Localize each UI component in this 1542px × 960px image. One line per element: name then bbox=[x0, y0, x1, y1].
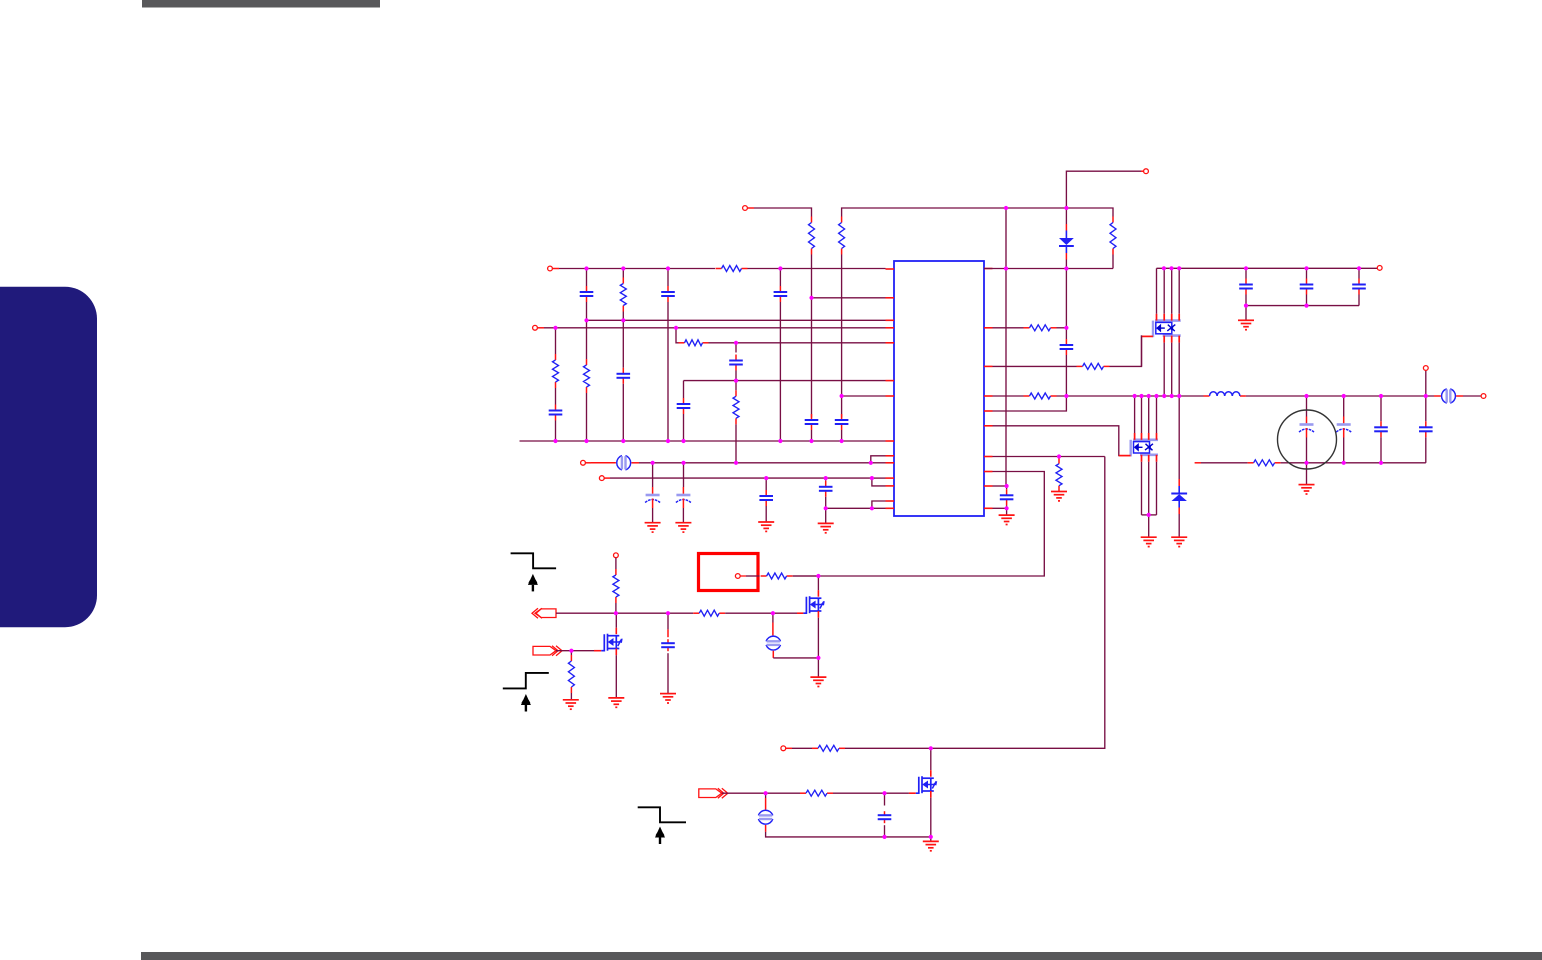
C11 bottom wire bbox=[682, 508, 684, 523]
schottky diode D2 (1179,493) bbox=[1171, 486, 1187, 508]
port P1 tail bbox=[747, 207, 754, 209]
wire W2 y650.7 bbox=[556, 650, 594, 652]
black step symbol S1 bbox=[511, 553, 556, 568]
junction at (555.5,441) bbox=[553, 439, 557, 443]
column 623 upper stub bbox=[622, 269, 624, 278]
resistor R19 (818-839,748) bbox=[812, 745, 845, 751]
wire pin328 to R10 bbox=[993, 327, 1024, 329]
junction at (586.5,441) bbox=[584, 439, 588, 443]
junction at (780.4,268.5) bbox=[778, 266, 782, 270]
capacitor C4 (780,294) bbox=[774, 286, 788, 302]
wire D1 to bus268 bbox=[1065, 260, 1067, 269]
C22 top wire bbox=[1425, 396, 1427, 421]
resistor R8 (684-702,343) bbox=[679, 340, 709, 346]
wire FB2 to port P8 bbox=[1463, 395, 1481, 397]
capacitor C14 (1066,347) bbox=[1060, 339, 1074, 355]
junction at (1164.2,396) bbox=[1162, 394, 1166, 398]
net-tie NT2 (766,817) bbox=[758, 810, 772, 824]
column 668 low bbox=[667, 302, 669, 441]
capacitor C9 (683,406) bbox=[677, 398, 691, 414]
vertical 1066 (268-396) bbox=[1065, 269, 1067, 340]
QL source tie bar bbox=[1142, 514, 1157, 516]
junction at (1141.5,396) bbox=[1139, 394, 1143, 398]
junction at (1343.7,396) bbox=[1342, 394, 1346, 398]
ferrite bead FB1 (623.7,463) bbox=[617, 456, 631, 470]
resistor R11 (1082-1103,366) bbox=[1077, 363, 1110, 369]
FB2 left stub bbox=[1434, 395, 1441, 397]
column 780 low bbox=[779, 302, 781, 441]
bus268 left segment bbox=[559, 268, 715, 270]
junction at (1343.7,462.8) bbox=[1342, 461, 1346, 465]
column 623 mid bbox=[622, 312, 624, 368]
junction at (1066.4,208) bbox=[1064, 206, 1068, 210]
column 736 mid bbox=[735, 371, 737, 391]
wire junction841 to U1 pin LX bbox=[842, 395, 886, 397]
junction at (1148.7,514.9) bbox=[1147, 513, 1151, 517]
port P2h tail bbox=[1141, 170, 1144, 172]
wire y478.1 bbox=[610, 477, 872, 479]
step down to pin y485.9 bbox=[872, 478, 886, 486]
R18 top wire bbox=[570, 651, 572, 655]
C10 bottom wire bbox=[652, 508, 654, 523]
step up to pin y455.8 bbox=[871, 456, 886, 463]
column 780 upper bbox=[779, 269, 781, 287]
resistor R14 (1253-1275,463) bbox=[1248, 460, 1281, 466]
junction at (1179.2,268.3) bbox=[1177, 266, 1181, 270]
wire C7 to bus441 bbox=[811, 430, 813, 441]
C16 top wire bbox=[1245, 268, 1247, 278]
CS1 top wire bbox=[772, 613, 774, 622]
column 683 upper bbox=[683, 381, 685, 398]
net-tie NT1 (773,643) bbox=[766, 636, 780, 650]
junction at (841.6,396) bbox=[840, 394, 844, 398]
junction at (884.5,793.2) bbox=[882, 791, 886, 795]
wire y462.8 into pin bbox=[871, 462, 886, 464]
ground G11 (571) bbox=[563, 700, 579, 709]
wire pin456 to 1104 bbox=[993, 456, 1105, 458]
junction at (811.5,297.8) bbox=[809, 296, 813, 300]
C17 bottom wire bbox=[1306, 295, 1308, 306]
ground G10 (1306) bbox=[1299, 485, 1315, 494]
resistor R4 (721-741,268) bbox=[716, 266, 748, 272]
R18 bottom wire bbox=[570, 693, 572, 700]
small MOSFET Q4 (616,643) bbox=[594, 628, 623, 656]
capacitor C8 (841,422) bbox=[835, 414, 849, 430]
capacitor C22 (1426,429.3) bbox=[1419, 421, 1433, 437]
port P4 (535,328) bbox=[533, 325, 538, 330]
port P9 (1425.8,368) bbox=[1423, 366, 1428, 371]
bus268 left segment b bbox=[748, 268, 886, 270]
junction at (871.9,508.3) bbox=[870, 506, 874, 510]
capacitor C1 (586,294) bbox=[580, 286, 594, 302]
junction at (1148.7,396) bbox=[1147, 394, 1151, 398]
wire y478 into pin bbox=[872, 477, 886, 479]
junction at (1425.8,396) bbox=[1424, 394, 1428, 398]
diode D1 bottom red stub bbox=[1065, 253, 1067, 260]
QL source to ground bbox=[1148, 515, 1150, 537]
C12 bottom wire bbox=[765, 506, 767, 522]
ground G8 (1179) bbox=[1171, 537, 1187, 546]
black arrow A2 bbox=[521, 694, 531, 712]
junction at (623.3,320.3) bbox=[621, 318, 625, 322]
capacitor C17 (1306.5,286.5) bbox=[1300, 279, 1314, 295]
wire R11 to gate corner bbox=[1110, 335, 1142, 366]
CS1 bottom red stub bbox=[772, 651, 774, 658]
Q3 drain wire bbox=[817, 576, 819, 590]
bus y342.8 to U1 bbox=[709, 342, 886, 344]
wire W1b y613.2 bbox=[725, 612, 797, 614]
QL source wires bbox=[1142, 462, 1157, 515]
filter FB1 right stub bbox=[632, 462, 640, 464]
resistor R20 (806-827,793) bbox=[800, 790, 833, 796]
U1 right pin stubs bbox=[984, 269, 993, 509]
C18 bottom wire bbox=[1358, 295, 1360, 306]
R16 bottom wire bbox=[615, 603, 617, 613]
P10 tail bbox=[740, 575, 746, 577]
Q5 drain wire bbox=[930, 748, 932, 770]
black step symbol S2 bbox=[503, 673, 549, 689]
bottom footer bar bbox=[141, 952, 1542, 960]
top header bar bbox=[142, 0, 380, 8]
filter FB1 left stub bbox=[591, 462, 616, 464]
column 586 upper bbox=[586, 269, 588, 287]
CS1 top red stub bbox=[772, 623, 774, 636]
junction at (736,342.8) bbox=[734, 341, 738, 345]
junction at (1306.5,305.6) bbox=[1304, 304, 1308, 308]
column 555 low bbox=[555, 421, 557, 442]
D2 top red stub bbox=[1178, 479, 1180, 486]
C12 top wire bbox=[765, 478, 767, 490]
junction at (586.5,268.5) bbox=[584, 266, 588, 270]
capacitor C24 (884,817.2) bbox=[878, 811, 892, 823]
port P5 (583,463) bbox=[581, 460, 586, 465]
junction at (766.2,478.1) bbox=[764, 476, 768, 480]
junction at (586.5,320.3) bbox=[584, 318, 588, 322]
junction at (818.4,657.9) bbox=[816, 656, 820, 660]
junction at (1006.6,486) bbox=[1005, 484, 1009, 488]
bus y441 bbox=[520, 440, 886, 442]
vertical 1066 lower bbox=[1065, 355, 1067, 396]
ground G4 (826) bbox=[818, 523, 834, 532]
IC U1 controller bbox=[894, 261, 984, 516]
junction at (825.7,478.1) bbox=[824, 476, 828, 480]
port P3 tail bbox=[552, 268, 559, 270]
junction at (1163.9,268.3) bbox=[1162, 266, 1166, 270]
junction at (1006.6,508.3) bbox=[1005, 506, 1009, 510]
junction at (1306.5,396) bbox=[1304, 394, 1308, 398]
junction at (818.4,576) bbox=[816, 574, 820, 578]
junction at (772.9,613.2) bbox=[771, 611, 775, 615]
junction at (825.7,508.3) bbox=[824, 506, 828, 510]
junction at (871.9,478.1) bbox=[870, 476, 874, 480]
resistor R5 (586) bbox=[584, 359, 590, 393]
junction at (1066.4,327.8) bbox=[1064, 326, 1068, 330]
bus y320.3 bbox=[587, 319, 886, 321]
junction at (1066.4,268.5) bbox=[1064, 266, 1068, 270]
ground G9 (1246) bbox=[1238, 320, 1254, 329]
junction at (555.5,327.8) bbox=[553, 326, 557, 330]
C20 top wire bbox=[1343, 396, 1345, 417]
column 623 low bbox=[622, 384, 624, 441]
ground G7 (1148) bbox=[1141, 537, 1157, 546]
CS2 bottom red stub bbox=[765, 825, 767, 832]
junction at (676,327.8) bbox=[674, 326, 678, 330]
wire pin396 to R12 bbox=[993, 395, 1024, 397]
wire pin486 to cap bbox=[993, 485, 1007, 487]
C23 bottom wire bbox=[667, 653, 669, 693]
SW bus right of L1 bbox=[1246, 395, 1434, 397]
wire R1 bottom down to junction 297 bbox=[811, 255, 813, 418]
capacitor C15 (1007,497.3) bbox=[1000, 489, 1014, 505]
column 586 mid bbox=[586, 302, 588, 359]
junction at (1066.4,396) bbox=[1064, 394, 1068, 398]
resistor R1 (811) bbox=[809, 217, 815, 255]
column 668 upper bbox=[667, 269, 669, 287]
wire pin508 to cap bbox=[993, 507, 1007, 509]
port P7 (1379.7,268) bbox=[1377, 266, 1382, 271]
port P1 (745,208) bbox=[743, 206, 748, 211]
wire y508 into pin bbox=[872, 507, 886, 509]
junction at (668,441) bbox=[666, 439, 670, 443]
wire R2 bottom to SW junction bbox=[841, 255, 843, 418]
diode D1 top red stub bbox=[1065, 224, 1067, 231]
junction at (1006,268.5) bbox=[1004, 266, 1008, 270]
resistor R9 (736) bbox=[733, 390, 739, 424]
port P8 (1483.5,396) bbox=[1481, 394, 1486, 399]
U1 left pin stubs bbox=[886, 269, 895, 508]
junction at (668,268.5) bbox=[666, 266, 670, 270]
CS2 bottom wire bbox=[766, 832, 931, 837]
ground G12 (616) bbox=[608, 698, 624, 707]
wire P1 to R1 top bbox=[754, 208, 812, 217]
port P6 tail bbox=[604, 477, 610, 479]
resistor R3 (1113) bbox=[1110, 217, 1116, 255]
port P4 tail bbox=[537, 327, 544, 329]
column 736 upper stub bbox=[735, 343, 737, 353]
junction at (765.6,793.2) bbox=[764, 791, 768, 795]
wire 1066 up to port P2h bbox=[1066, 171, 1141, 208]
junction at (1246,268.3) bbox=[1244, 266, 1248, 270]
D2 bottom red stub bbox=[1178, 508, 1180, 515]
wire C8 to bus441 bbox=[841, 430, 843, 441]
wire pin426 to low gate bbox=[993, 426, 1119, 457]
black arrow A3 bbox=[655, 827, 665, 845]
port P6 (602,478) bbox=[599, 476, 604, 481]
junction at (811.5,441) bbox=[809, 439, 813, 443]
junction at (1306.5,462.8) bbox=[1304, 461, 1308, 465]
Q3 source to ground bbox=[817, 658, 819, 677]
CS2 top wire bbox=[765, 793, 767, 798]
C17 top wire bbox=[1306, 268, 1308, 278]
branch 676 down bbox=[676, 328, 679, 343]
step up to pin y501 bbox=[872, 501, 886, 508]
capacitor C3 (668,294) bbox=[661, 286, 675, 302]
wire W1 y613.2 bbox=[556, 612, 693, 614]
bus268 VIN segment bbox=[1157, 267, 1378, 269]
wire P12 to R19 bbox=[792, 747, 812, 749]
port P2h (1146,171) bbox=[1144, 169, 1149, 174]
rail to ground G9 bbox=[1245, 306, 1247, 321]
resistor R16 (616) bbox=[613, 569, 619, 603]
FB2 right stub bbox=[1456, 395, 1463, 397]
ferrite bead FB2 (1448,396) bbox=[1442, 389, 1456, 403]
junction at (623.3,441) bbox=[621, 439, 625, 443]
chevron port PT1 (<<) bbox=[532, 608, 556, 618]
resistor R17 (699-719,613) bbox=[693, 610, 725, 616]
P12 tail bbox=[786, 747, 792, 749]
port P3 (550,268) bbox=[548, 266, 553, 271]
junction at (841.6,441) bbox=[840, 439, 844, 443]
C24 top wire bbox=[884, 793, 886, 805]
black arrow A1 bbox=[528, 574, 538, 592]
C19 bottom wire bbox=[1306, 438, 1308, 463]
C13 top wire bbox=[825, 478, 827, 481]
junction at (1059,456.5) bbox=[1057, 454, 1061, 458]
resistor R13 (1059) bbox=[1056, 458, 1062, 492]
port P11 (616,555) bbox=[614, 553, 619, 558]
junction at (1171.5,268.3) bbox=[1169, 266, 1173, 270]
wire W3b bbox=[833, 792, 909, 794]
vertical 1006 (y208-486) bbox=[1005, 208, 1007, 486]
junction at (1381,462.8) bbox=[1379, 461, 1383, 465]
black step symbol S3 bbox=[638, 807, 686, 822]
capacitor C18 (1359,286.5) bbox=[1352, 279, 1366, 295]
polarized capacitor C11 (683) bbox=[676, 487, 691, 508]
junction at (1179.2,396) bbox=[1177, 394, 1181, 398]
feedback rail right bbox=[1281, 462, 1426, 464]
polarized capacitor C20 (1344) bbox=[1336, 417, 1351, 438]
wire pin411 up at 1066 bbox=[993, 396, 1067, 411]
junction at (736,380.6) bbox=[734, 379, 738, 383]
ground G13 (668) bbox=[660, 694, 676, 703]
D2 cathode wire bbox=[1178, 396, 1180, 479]
wire R3 bottom to bus268 bbox=[1112, 255, 1114, 269]
long vertical 1104 down bbox=[931, 457, 1105, 749]
wire R19 to junction bbox=[845, 747, 931, 749]
polarized capacitor C10 (653) bbox=[645, 487, 660, 508]
capacitor C16 (1246,286.5) bbox=[1239, 279, 1253, 295]
junction at (1134.6,396) bbox=[1133, 394, 1137, 398]
bus y327.8 bbox=[544, 327, 886, 329]
chevron port PT2 (>>) bbox=[533, 646, 562, 656]
resistor R12 (1029-1050,396) bbox=[1024, 393, 1057, 399]
QH gate wire bbox=[1141, 335, 1143, 366]
CS1 bottom wire bbox=[773, 657, 818, 659]
capacitor C12 (766,498) bbox=[759, 490, 773, 506]
C21 top wire bbox=[1380, 396, 1382, 421]
power MOSFET Q2 low-side bbox=[1119, 433, 1158, 462]
junction at (1359,268.3) bbox=[1357, 266, 1361, 270]
C20 bottom wire bbox=[1343, 438, 1345, 463]
column 683 low bbox=[683, 414, 685, 441]
small MOSFET Q3 (818,605) bbox=[797, 590, 825, 618]
C23 top wire bbox=[667, 613, 669, 629]
QH source wires bbox=[1164, 343, 1179, 396]
QL drain wires bbox=[1135, 396, 1157, 433]
highlight circle bbox=[1278, 410, 1337, 469]
wire R15 to junction 818 bbox=[793, 575, 819, 577]
junction at (884.5,836.9) bbox=[882, 835, 886, 839]
junction at (615.9,613.2) bbox=[614, 611, 618, 615]
power MOSFET Q1 high-side bbox=[1142, 314, 1181, 343]
wire R12 to SW bus bbox=[1057, 395, 1204, 397]
wire y297.8 (811-U1) bbox=[812, 297, 886, 299]
resistor R10 (1029-1050,328) bbox=[1024, 325, 1057, 331]
C13 bottom wire bbox=[825, 497, 827, 524]
zener diode D1 (1066,238) bbox=[1059, 231, 1074, 254]
R13 top connection bbox=[1058, 457, 1060, 458]
junction at (683.5,462.8) bbox=[681, 461, 685, 465]
chevron port PT3 (>>) bbox=[699, 788, 728, 798]
junction at (930.8,748.3) bbox=[929, 746, 933, 750]
C10 top wire bbox=[652, 463, 654, 487]
C24 bottom wire bbox=[884, 825, 886, 837]
junction at (623.3,268.5) bbox=[621, 266, 625, 270]
junction at (571.4,650.7) bbox=[569, 649, 573, 653]
wire P10 to box edge bbox=[746, 575, 760, 577]
D2 anode wire bbox=[1178, 514, 1180, 537]
resistor R15 (767-787,576) bbox=[761, 573, 793, 579]
inductor L1 (1209-1240,396) bbox=[1204, 392, 1246, 396]
capacitor C5 (555,412.5) bbox=[549, 405, 563, 421]
port P12 (783,748) bbox=[781, 746, 786, 751]
column 586 low bbox=[586, 393, 588, 441]
wire y508.3 bbox=[826, 507, 872, 509]
bus y380.6 bbox=[684, 380, 886, 382]
P11 lead wire bbox=[615, 558, 617, 569]
wire y462.8 bbox=[639, 462, 871, 464]
C21 bottom wire bbox=[1380, 437, 1382, 463]
capacitor C23 (668,645.2) bbox=[661, 639, 675, 651]
Q5 ground stub bbox=[930, 837, 932, 842]
feedback rail left bbox=[1201, 462, 1248, 464]
ground G1 (653) bbox=[645, 523, 661, 532]
port P7 tail bbox=[1376, 267, 1378, 269]
wire D1 anode up bbox=[1065, 208, 1067, 224]
capacitor C6 (736,362.5) bbox=[729, 355, 743, 371]
junction at (870.8,462.8) bbox=[869, 461, 873, 465]
ground G5 (1007) bbox=[999, 515, 1015, 524]
rail to ground G10 bbox=[1306, 463, 1308, 485]
C11 top wire bbox=[683, 463, 685, 487]
Q4 source wire bbox=[615, 655, 617, 698]
left navy side tab bbox=[0, 287, 97, 628]
C19 top wire bbox=[1306, 396, 1308, 417]
junction at (1306.5,268.3) bbox=[1304, 266, 1308, 270]
Q5 source wire bbox=[930, 798, 932, 837]
wire pin366 to R11 bbox=[993, 365, 1077, 367]
port P9 drop wire bbox=[1425, 370, 1427, 396]
wire pin471 down at 1044 bbox=[793, 472, 1044, 577]
wire top B (841-1113) y208 bbox=[842, 208, 1113, 217]
rail left red tip bbox=[1195, 462, 1201, 464]
junction at (1156.5,396) bbox=[1154, 394, 1158, 398]
junction at (668,613.2) bbox=[666, 611, 670, 615]
resistor R6 (623) bbox=[620, 278, 626, 312]
highlight red box bbox=[699, 554, 759, 591]
cap bank bottom rail bbox=[1246, 305, 1359, 307]
junction at (780.4,441) bbox=[778, 439, 782, 443]
column 555 upper bbox=[555, 328, 557, 354]
wire R10 to 1066 bbox=[1057, 327, 1067, 329]
capacitor C21 (1381,429.3) bbox=[1374, 421, 1388, 437]
C22 bottom wire bbox=[1425, 437, 1427, 463]
junction at (683.5,441) bbox=[681, 439, 685, 443]
ground G15 (931) bbox=[923, 841, 939, 850]
junction at (1006,208) bbox=[1004, 206, 1008, 210]
small MOSFET Q5 (931,786) bbox=[909, 770, 937, 798]
junction at (1246,305.6) bbox=[1244, 304, 1248, 308]
